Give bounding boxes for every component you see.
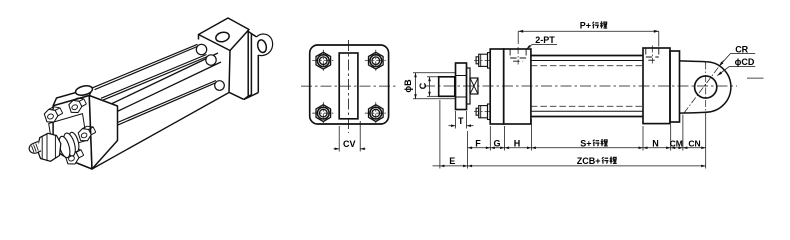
rod threaded tip (3D): [29, 142, 41, 154]
svg-text:C: C: [418, 82, 428, 89]
tie rod C end nut: [215, 81, 225, 91]
tie-rod nut bottom-right (front view): [369, 105, 384, 122]
rod diameter extension lines: [413, 72, 456, 74]
clevis base plate (side view): [670, 51, 680, 122]
barrel (side view): [531, 55, 643, 57]
head cap (side view): [504, 49, 531, 124]
tie-rod nut top-right (front view): [369, 52, 384, 69]
rod gland collar rings (3D): [67, 131, 81, 153]
svg-text:ϕB: ϕB: [403, 79, 413, 93]
gland plate CV rectangle: [339, 53, 358, 119]
svg-text:CR: CR: [735, 44, 748, 54]
rod hex nut (3D): [37, 133, 61, 161]
svg-text:2-PT: 2-PT: [535, 35, 555, 45]
rear cap edges (3D): [198, 35, 200, 40]
tie rod B (3D, second pair): [101, 55, 207, 99]
head port (hidden): [509, 49, 511, 58]
svg-text:F: F: [475, 138, 481, 148]
eye centerline diagonal: [684, 61, 724, 114]
dimension row F G H S N CM CN: [468, 147, 706, 149]
dimension C: [427, 76, 439, 78]
rear port (hidden): [645, 48, 647, 57]
tie-rod nut bottom-left (front view): [316, 105, 331, 122]
rear cap (side view): [643, 48, 670, 124]
flange plate (front view): [310, 45, 389, 124]
clevis eye hole CD: [695, 76, 717, 98]
svg-text:N: N: [652, 138, 659, 148]
barrel tube top edge (3D): [110, 53, 218, 105]
front cap front face (3D): [53, 96, 92, 170]
svg-text:ZCB+: ZCB+: [577, 156, 601, 166]
tie-rod nut top-left (front view): [316, 52, 331, 69]
clevis plate (3D): [248, 31, 256, 37]
tie rod A (3D, upper pair): [93, 44, 198, 88]
tie rod A end nut: [196, 44, 206, 54]
port front (3D): [75, 84, 94, 96]
tie-rod nut 3D top-right: [69, 100, 82, 112]
dimension CV: [338, 126, 340, 152]
reference line segment: [747, 77, 764, 79]
piston rod thread: [439, 77, 455, 97]
svg-text:G: G: [493, 138, 500, 148]
dimension PhiB: [415, 73, 417, 99]
svg-text:CV: CV: [343, 139, 356, 149]
wrench flat square: [470, 78, 478, 94]
tie rod B end nut: [206, 55, 216, 65]
svg-text:T: T: [458, 116, 464, 126]
washer: [467, 68, 471, 104]
tie-rod nut 3D bottom-right: [78, 129, 91, 141]
barrel tube lower edge (3D): [114, 62, 221, 113]
tie-rod nut 3D bottom-left: [65, 151, 79, 164]
front cap right side face (3D): [89, 96, 117, 170]
tie-rod nut bottom (side view): [476, 108, 479, 115]
tie-rod nut top (side view): [476, 57, 479, 64]
svg-text:ϕCD: ϕCD: [735, 57, 755, 67]
svg-text:P+: P+: [580, 21, 591, 31]
centerline vertical: [348, 40, 350, 133]
front cap top strip (3D): [53, 88, 92, 106]
rear cap top face (3D): [199, 18, 250, 51]
dimension T: [455, 111, 457, 129]
svg-text:CN: CN: [688, 138, 700, 148]
centerline main axis: [424, 85, 737, 87]
tie rod C (3D, lower pair): [114, 81, 216, 125]
tie-rod nut 3D top-left: [44, 109, 58, 122]
dimension row E / ZCB: [433, 165, 706, 167]
svg-text:CM: CM: [670, 138, 683, 148]
gland plate (side view): [490, 49, 504, 124]
svg-text:S+: S+: [580, 138, 591, 148]
clevis ear (3D): [257, 34, 273, 56]
port rear (3D): [215, 31, 230, 43]
eye centerline vertical: [705, 63, 707, 112]
gland plate square on face (3D): [49, 114, 87, 151]
clevis tongue: [680, 61, 731, 113]
bottom silhouette edge (3D): [92, 93, 229, 170]
rod hex nut (side view): [456, 63, 467, 110]
centerline horizontal: [301, 85, 398, 87]
dimension extension lines bottom: [439, 100, 441, 169]
svg-text:E: E: [449, 156, 455, 166]
svg-text:H: H: [514, 138, 521, 148]
